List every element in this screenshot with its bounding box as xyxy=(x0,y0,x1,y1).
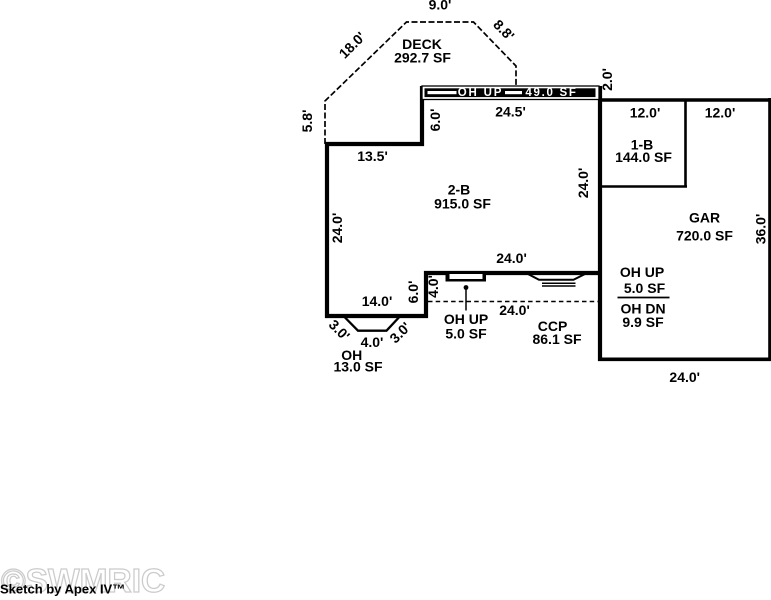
svg-text:86.1 SF: 86.1 SF xyxy=(532,331,581,347)
deck outline (dashed) xyxy=(325,22,516,144)
svg-text:24.5': 24.5' xyxy=(495,104,526,120)
svg-text:2.0': 2.0' xyxy=(599,68,615,91)
stoop door sill rectangle xyxy=(446,271,487,282)
svg-text:14.0': 14.0' xyxy=(362,293,393,309)
svg-text:49.0 SF: 49.0 SF xyxy=(525,87,577,99)
svg-text:720.0 SF: 720.0 SF xyxy=(676,227,733,243)
svg-text:13.5': 13.5' xyxy=(357,148,388,164)
wall garage outline xyxy=(598,98,771,359)
leader dot and line for OH UP 5.0 SF xyxy=(464,285,469,310)
svg-text:6.0': 6.0' xyxy=(427,109,443,132)
wall main house outline xyxy=(327,86,600,316)
dashed CCP patio line xyxy=(428,301,598,303)
steps symbol xyxy=(527,274,586,287)
svg-text:6.0': 6.0' xyxy=(405,281,421,304)
svg-text:OH UP: OH UP xyxy=(458,87,503,99)
svg-text:4.0': 4.0' xyxy=(361,334,384,350)
svg-text:915.0 SF: 915.0 SF xyxy=(434,196,491,212)
OH UP strip box xyxy=(422,86,599,100)
svg-text:24.0': 24.0' xyxy=(496,250,527,266)
svg-text:5.8': 5.8' xyxy=(299,110,315,133)
svg-text:292.7 SF: 292.7 SF xyxy=(394,50,451,66)
svg-text:Sketch by Apex IV™: Sketch by Apex IV™ xyxy=(0,582,125,597)
svg-text:OH UP: OH UP xyxy=(620,264,664,280)
svg-text:12.0': 12.0' xyxy=(630,105,661,121)
wire wall shared house garage vertical xyxy=(598,86,602,361)
svg-text:24.0': 24.0' xyxy=(499,302,530,318)
svg-text:9.0': 9.0' xyxy=(429,0,452,13)
wall 1-B room xyxy=(600,100,687,187)
svg-text:GAR: GAR xyxy=(689,210,720,226)
svg-text:5.0 SF: 5.0 SF xyxy=(624,280,666,296)
svg-text:5.0 SF: 5.0 SF xyxy=(445,326,487,342)
svg-text:13.0 SF: 13.0 SF xyxy=(333,359,382,375)
svg-text:144.0 SF: 144.0 SF xyxy=(615,149,672,165)
svg-text:24.0': 24.0' xyxy=(669,369,700,385)
svg-text:36.0': 36.0' xyxy=(753,214,769,245)
svg-text:12.0': 12.0' xyxy=(705,105,736,121)
bay window trapezoid xyxy=(345,317,400,331)
svg-text:4.0': 4.0' xyxy=(425,275,441,298)
svg-text:24.0': 24.0' xyxy=(329,213,345,244)
svg-text:24.0': 24.0' xyxy=(575,168,591,199)
svg-text:9.9 SF: 9.9 SF xyxy=(622,314,664,330)
garage interior separator line xyxy=(618,297,670,299)
